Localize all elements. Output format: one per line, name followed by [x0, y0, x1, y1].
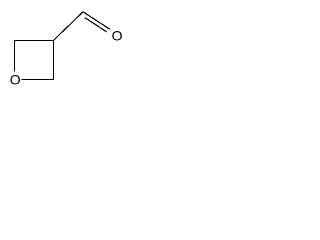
ring left bond	[14, 40, 16, 72]
C=O bond outer line	[83, 12, 110, 29]
C=O bond inner line	[85, 18, 107, 32]
ring right bond	[52, 40, 54, 80]
ring bottom bond	[22, 79, 55, 81]
svg-text:O: O	[112, 27, 123, 43]
svg-text:O: O	[10, 71, 21, 87]
substituent bond C3-CHO	[53, 12, 83, 41]
ring top bond	[14, 40, 54, 42]
